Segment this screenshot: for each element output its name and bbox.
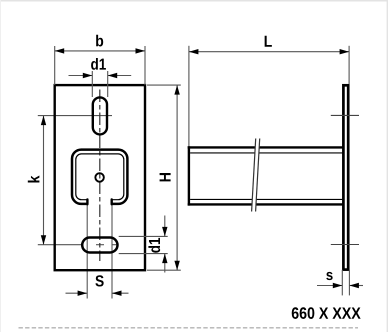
dimension b: extension lines — [54, 46, 56, 85]
dimension L: left extension — [188, 46, 190, 146]
label H (rotated) — [160, 173, 171, 181]
hole center cross top — [331, 114, 359, 116]
bottom oval slot — [82, 238, 117, 253]
dimension k: top arrow — [41, 116, 46, 126]
wire: vertical dashed center line — [99, 90, 101, 262]
dimension H: bottom arrow — [174, 261, 179, 271]
break symbol white gap — [252, 139, 260, 212]
wire: slot edge / S extension line left — [86, 205, 88, 299]
dimension b: line — [55, 50, 145, 52]
label S — [95, 275, 103, 286]
part number text — [292, 307, 361, 319]
dimension d1 right: upper piece — [164, 216, 166, 237]
keyhole inner line — [76, 154, 124, 200]
dimension d1 top: right piece — [108, 75, 132, 77]
label d1 right (rotated) — [148, 238, 160, 253]
dimension H: extension top — [147, 84, 181, 86]
hole center cross bottom — [331, 244, 359, 246]
dimension d1 top: extension lines — [91, 71, 93, 97]
break line 1 — [252, 139, 256, 212]
label d1 — [91, 58, 106, 70]
label k (rotated) — [28, 175, 40, 182]
bar inner top line — [190, 152, 343, 154]
bar top edge — [188, 146, 343, 148]
dimension L: right extension — [348, 46, 350, 84]
page border right — [387, 0, 388, 332]
dimension S: left piece — [66, 292, 88, 294]
dimension H: line — [176, 85, 178, 270]
dimension d1 right: lower piece — [164, 254, 166, 273]
dimension s: right piece — [349, 285, 363, 287]
label L — [265, 36, 272, 47]
dimension H: top arrow — [174, 85, 179, 95]
dimension s: extension lines — [341, 270, 343, 296]
dimension S: right piece — [112, 292, 129, 294]
dimension L: left arrow — [189, 49, 199, 54]
bar left end — [188, 146, 190, 205]
label b — [96, 35, 103, 47]
dimension k: bottom arrow — [41, 235, 46, 245]
wire: slot edge / S extension line right — [111, 205, 113, 299]
bar inner bottom line — [190, 198, 343, 200]
top slot d1 — [93, 97, 107, 134]
dimension b: left arrow — [55, 48, 64, 53]
dimension L: right arrow — [340, 49, 350, 54]
wire: center dash inside oval right — [112, 244, 118, 246]
break line 2 — [256, 139, 260, 212]
wire: center line through top slot (k extension) — [38, 115, 112, 117]
keyhole outer outline — [72, 150, 127, 204]
label s — [326, 272, 332, 280]
keyhole collar end cap right — [110, 200, 112, 205]
dimension d1 top: left piece — [69, 75, 93, 77]
plate outline — [55, 85, 145, 270]
dimension H: extension bottom — [147, 269, 181, 271]
wire: center line to bottom oval (k extension) — [38, 244, 84, 246]
side plate — [343, 85, 348, 269]
dimension s: left piece — [317, 285, 342, 287]
wire: center dash inside oval — [96, 244, 104, 246]
keyhole collar end cap left — [86, 200, 88, 205]
bar bottom edge — [188, 203, 343, 205]
dimension d1 right: extension lines — [119, 235, 168, 237]
page border top — [0, 0, 388, 2]
center circle — [95, 173, 104, 182]
bottom dashed separator — [19, 327, 359, 329]
dimension b: right arrow — [136, 48, 146, 53]
dimension k: line — [43, 116, 45, 245]
page border left — [0, 0, 1, 332]
dimension L: line — [189, 51, 349, 53]
